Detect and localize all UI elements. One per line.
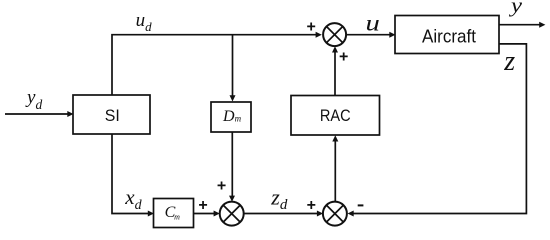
svg-text:ud: ud [136,10,153,34]
wire RAC to S1 [334,52,336,96]
arrowhead into Aircraft [389,32,395,38]
arrowhead Dm into S2 [229,196,235,202]
block Aircraft [395,16,499,54]
wire SI top to ud rail [112,35,317,95]
arrowhead Cm into S2 [214,211,220,217]
summing junction S3 [323,202,347,226]
svg-text:u: u [366,10,380,35]
svg-text:Dm: Dm [222,108,242,125]
svg-text:SI: SI [105,106,120,125]
wire S2 to S3 [244,213,318,215]
block Dm [211,102,251,132]
svg-text:+: + [198,197,207,214]
svg-text:+: + [217,178,226,195]
wire SI bottom to Cm [112,134,149,214]
arrowhead RAC into S1 [332,46,338,52]
arrowhead zd into S3 [317,211,323,217]
wire S1 to Aircraft [346,34,390,36]
arrowhead into Dm [230,95,236,101]
arrowhead into SI [67,111,73,117]
svg-text:+: + [339,48,348,65]
summing junction S1 [323,23,346,46]
svg-text:Aircraft: Aircraft [422,27,476,47]
block Cm [154,199,194,228]
svg-text:xd: xd [124,185,142,213]
wire Aircraft y out [499,24,540,26]
svg-text:RAC: RAC [320,106,351,125]
wire branch to Dm [232,35,234,97]
svg-text:z: z [503,46,515,77]
arrowhead ud into S1 [316,32,322,38]
sign minus z into S3 [358,204,364,206]
wire Cm to S2 [194,213,215,215]
svg-text:Cm: Cm [165,204,180,222]
wire yd input [5,113,68,115]
block SI [73,95,150,134]
svg-text:+: + [307,197,316,214]
svg-text:zd: zd [270,184,288,213]
svg-text:yd: yd [25,87,42,112]
wire Dm to S2 [231,132,233,197]
arrowhead y out [539,22,545,28]
arrowhead S3 into RAC [332,135,338,141]
wire z feedback [353,44,527,214]
arrowhead into Cm [148,211,154,217]
wire S3 to RAC [334,141,336,203]
svg-text:+: + [307,18,316,35]
arrowhead z into S3 [348,211,354,217]
svg-text:y: y [509,0,523,17]
summing junction S2 [220,202,244,226]
block RAC [291,96,380,136]
